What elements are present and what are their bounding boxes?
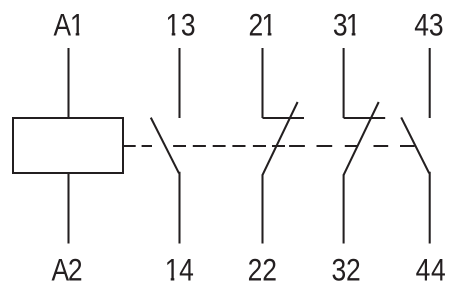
svg-text:22: 22	[248, 253, 277, 288]
svg-text:32: 32	[331, 253, 360, 288]
svg-text:A2: A2	[51, 253, 81, 288]
svg-text:14: 14	[165, 253, 194, 288]
svg-text:13: 13	[166, 8, 197, 43]
svg-text:44: 44	[416, 253, 447, 288]
svg-text:43: 43	[414, 8, 443, 43]
svg-text:31: 31	[333, 8, 360, 43]
svg-text:21: 21	[248, 8, 275, 43]
svg-text:A1: A1	[53, 8, 83, 43]
